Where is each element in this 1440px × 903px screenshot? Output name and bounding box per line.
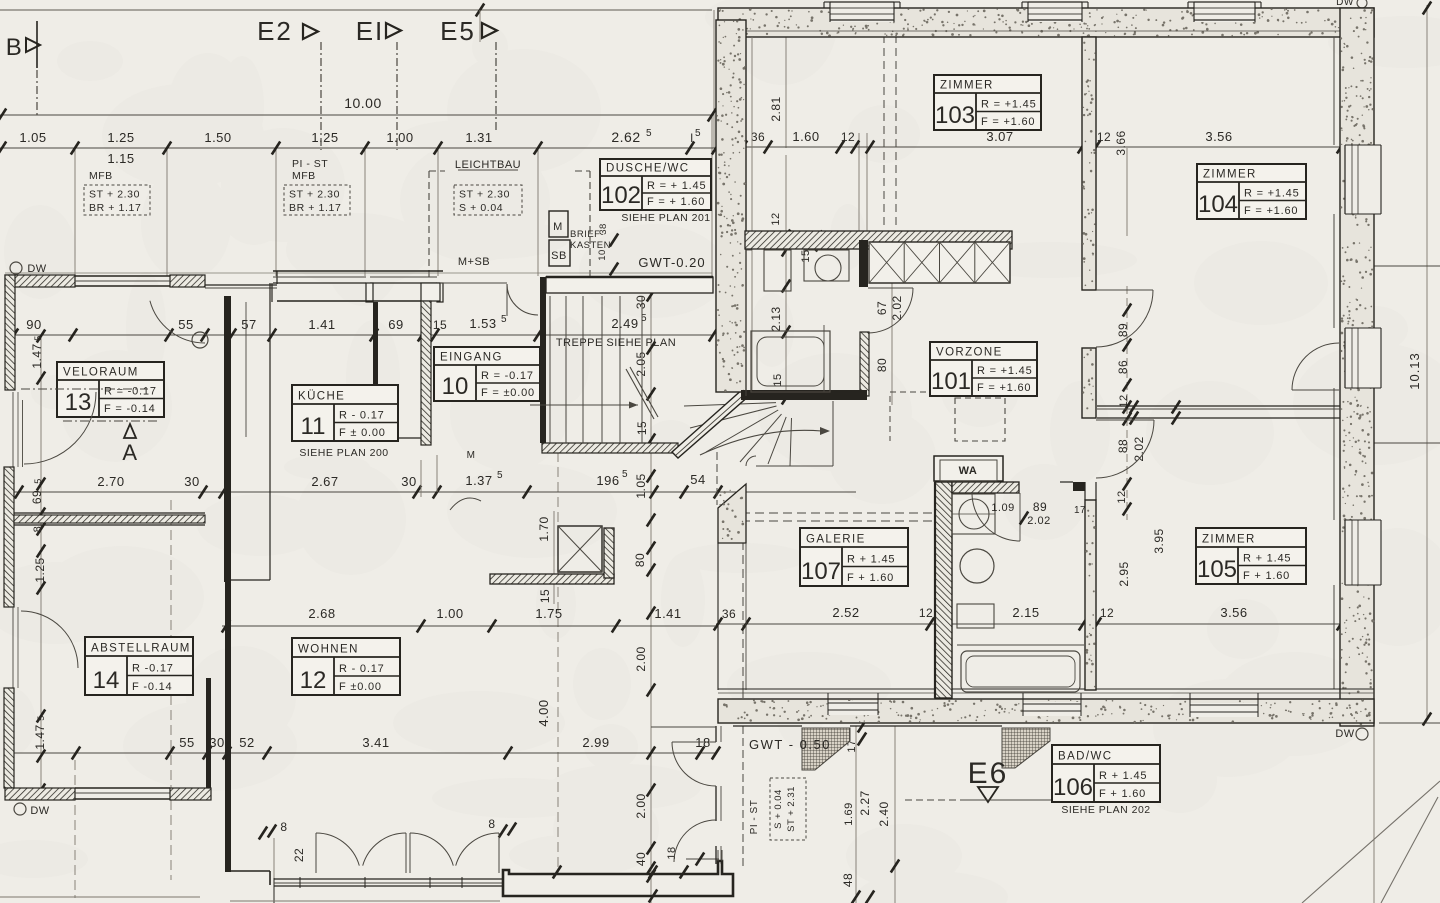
room vorzone 101: [930, 342, 1037, 396]
svg-text:BR + 1.17: BR + 1.17: [89, 202, 141, 214]
svg-text:10.13: 10.13: [1407, 352, 1422, 390]
terrace slab outline bottom center: [0, 850, 733, 903]
room zimmer 103: [934, 75, 1041, 130]
svg-text:MFB: MFB: [292, 170, 316, 182]
svg-text:5: 5: [646, 128, 652, 139]
svg-text:A: A: [122, 440, 137, 465]
svg-text:2.95: 2.95: [1117, 561, 1131, 586]
svg-text:12: 12: [1097, 130, 1111, 144]
dusche/wc fixtures: shower, washer, tub: [746, 250, 849, 392]
Leichtbau box: [454, 159, 522, 215]
svg-text:2.67: 2.67: [311, 474, 338, 489]
küche walls: [373, 302, 421, 438]
svg-text:ZIMMER: ZIMMER: [1203, 169, 1257, 181]
svg-text:57: 57: [241, 317, 256, 332]
svg-text:55: 55: [178, 317, 193, 332]
svg-text:103: 103: [935, 102, 975, 129]
room küche 11: [292, 385, 398, 441]
svg-text:104: 104: [1198, 191, 1238, 218]
svg-text:101: 101: [931, 368, 971, 395]
svg-text:102: 102: [601, 182, 641, 209]
svg-text:11: 11: [301, 413, 326, 440]
vorzone wc room (bath 102 lower) walls: [746, 250, 824, 396]
svg-text:EI: EI: [356, 16, 385, 46]
vertical dim labels upper wing x=786 x=892 x=1127: [769, 96, 1166, 586]
wohnen bottom wall + french doors: [225, 833, 503, 903]
svg-text:R - 0.17: R - 0.17: [339, 663, 385, 675]
svg-text:F = -0.14: F = -0.14: [104, 403, 156, 415]
vertical dim 10.13 right edge: [1407, 1, 1431, 725]
svg-text:15: 15: [772, 373, 784, 386]
svg-text:1.50: 1.50: [204, 130, 231, 145]
svg-text:12: 12: [300, 667, 327, 694]
svg-text:WA: WA: [959, 465, 978, 477]
svg-text:5: 5: [36, 715, 46, 721]
svg-text:3.41: 3.41: [362, 735, 389, 750]
room galerie 107: [800, 528, 908, 586]
svg-text:1.75: 1.75: [535, 606, 562, 621]
svg-text:89: 89: [1033, 500, 1047, 514]
bad/wc fixtures: [952, 493, 1084, 692]
svg-text:GALERIE: GALERIE: [806, 534, 866, 546]
svg-text:2.68: 2.68: [308, 606, 335, 621]
section marker A: [122, 424, 137, 465]
door to terrace upper: [672, 742, 716, 786]
dimension chain y=753: [14, 735, 720, 760]
door to terrace lower: [674, 820, 716, 862]
MFB box 1: [84, 151, 150, 215]
svg-text:E6: E6: [968, 757, 1009, 790]
svg-text:F = ±0.00: F = ±0.00: [481, 387, 535, 399]
svg-text:12: 12: [770, 212, 782, 225]
svg-text:3.66: 3.66: [1114, 130, 1128, 155]
svg-text:67: 67: [875, 301, 889, 315]
exterior wall left, lower wing: [4, 275, 18, 788]
svg-text:SIEHE PLAN 201: SIEHE PLAN 201: [621, 212, 710, 224]
svg-text:10: 10: [597, 249, 608, 261]
svg-text:F ± 0.00: F ± 0.00: [339, 427, 386, 439]
svg-text:196: 196: [596, 473, 619, 488]
svg-text:36: 36: [751, 130, 765, 144]
svg-text:R = +1.45: R = +1.45: [977, 365, 1033, 377]
interior wall 103|104 (speckled): [1082, 37, 1153, 418]
svg-text:36: 36: [722, 607, 736, 621]
svg-text:DW: DW: [1336, 0, 1354, 8]
svg-text:48: 48: [841, 873, 855, 887]
svg-text:3.56: 3.56: [1220, 605, 1247, 620]
svg-text:88: 88: [1116, 439, 1130, 453]
room abstellraum 14: [85, 637, 193, 695]
svg-text:54: 54: [690, 472, 705, 487]
room eingang 10: [434, 347, 540, 401]
svg-text:WOHNEN: WOHNEN: [298, 644, 359, 656]
svg-text:30: 30: [209, 735, 224, 750]
svg-text:5: 5: [33, 478, 43, 484]
svg-text:15: 15: [800, 249, 812, 262]
dusche/wc 102 walls + door: [741, 240, 913, 400]
svg-text:12: 12: [1100, 606, 1114, 620]
svg-text:ST + 2.30: ST + 2.30: [459, 189, 510, 201]
svg-text:F + 1.60: F + 1.60: [1243, 570, 1290, 582]
diagonal wall stair SW (double line): [672, 388, 750, 458]
svg-text:5: 5: [622, 469, 628, 480]
svg-text:GWT-0.20: GWT-0.20: [638, 255, 705, 270]
svg-text:DW: DW: [27, 263, 46, 275]
svg-text:F + 1.60: F + 1.60: [847, 572, 894, 584]
svg-text:1.05: 1.05: [19, 130, 46, 145]
svg-text:ST + 2.30: ST + 2.30: [289, 189, 340, 201]
svg-text:2.02: 2.02: [1027, 515, 1050, 527]
svg-text:M+SB: M+SB: [458, 256, 490, 268]
svg-text:2.02: 2.02: [1132, 436, 1146, 461]
svg-text:S + 0.04: S + 0.04: [459, 202, 503, 214]
svg-text:SIEHE PLAN 200: SIEHE PLAN 200: [299, 447, 388, 459]
svg-text:R = -0.17: R = -0.17: [481, 370, 534, 382]
room zimmer 105: [1196, 528, 1306, 584]
vertical dim labels center chain x=651: [536, 288, 719, 874]
svg-text:R = -0.17: R = -0.17: [104, 386, 157, 398]
svg-text:2.52: 2.52: [832, 605, 859, 620]
svg-text:2.15: 2.15: [1012, 605, 1039, 620]
exterior wall top, lower wing (masonry hatched): [5, 271, 712, 437]
eingang right wall + stair bottom wall: [540, 283, 678, 453]
room bad/wc 106: [1052, 745, 1160, 802]
svg-text:R + 1.45: R + 1.45: [1099, 770, 1147, 782]
svg-text:TREPPE SIEHE PLAN: TREPPE SIEHE PLAN: [556, 337, 676, 349]
svg-text:M: M: [553, 221, 563, 233]
svg-text:ST + 2.30: ST + 2.30: [89, 189, 140, 201]
fireplace / chimney: [490, 526, 614, 584]
MFB box 2: [284, 158, 350, 215]
svg-text:2.40: 2.40: [877, 801, 891, 826]
svg-text:106: 106: [1053, 774, 1093, 801]
svg-text:10.00: 10.00: [344, 95, 382, 111]
svg-text:22: 22: [292, 848, 306, 862]
dimension chain y=624 upper wing: [714, 605, 1350, 631]
svg-text:M: M: [467, 450, 476, 461]
svg-text:1.41: 1.41: [308, 317, 335, 332]
section marker E5: [440, 16, 497, 46]
svg-text:30: 30: [634, 295, 648, 309]
svg-text:13: 13: [65, 389, 92, 416]
dimension chain y=148: [0, 128, 720, 155]
svg-text:F = +1.60: F = +1.60: [1244, 205, 1298, 217]
east wall of lower wing with two doors: [651, 690, 743, 866]
svg-text:15: 15: [538, 589, 552, 603]
svg-text:DW: DW: [1335, 728, 1354, 740]
svg-text:12: 12: [841, 130, 855, 144]
svg-text:55: 55: [179, 735, 194, 750]
diagonal wall stair lower piece (speckled polygon): [718, 484, 746, 690]
upper wing top exterior wall: [718, 0, 1374, 37]
svg-text:1.31: 1.31: [465, 130, 492, 145]
crosshatched terrace piers: [733, 726, 1374, 770]
svg-text:1.70: 1.70: [537, 516, 551, 541]
dimension chain y=335 lower wing interior: [10, 313, 717, 348]
svg-text:2.05: 2.05: [634, 351, 648, 376]
section marker E2: [257, 16, 318, 46]
galerie|bad hatched wall: [934, 456, 1019, 698]
svg-text:8: 8: [280, 820, 287, 834]
svg-text:80: 80: [875, 358, 889, 372]
interior hatched wall veloraum/abstellraum: [14, 513, 205, 525]
svg-text:8: 8: [32, 526, 44, 533]
svg-text:DW: DW: [30, 805, 49, 817]
door zimmer105 + wall piece: [1060, 420, 1154, 690]
M / SB letterbox: [458, 211, 618, 276]
svg-text:3.56: 3.56: [1205, 129, 1232, 144]
svg-text:1.25: 1.25: [311, 130, 338, 145]
svg-text:15: 15: [433, 318, 447, 332]
winder stairs lower: [684, 401, 833, 505]
vertical dim labels left chain x=41: [30, 329, 47, 796]
svg-text:LEICHTBAU: LEICHTBAU: [455, 159, 521, 171]
svg-text:30: 30: [401, 474, 416, 489]
svg-text:2.27: 2.27: [858, 790, 872, 815]
svg-text:1.69: 1.69: [843, 802, 855, 825]
svg-text:69: 69: [388, 317, 403, 332]
GWT labels: [638, 255, 831, 752]
svg-text:DUSCHE/WC: DUSCHE/WC: [606, 163, 690, 175]
svg-text:5: 5: [501, 314, 507, 325]
svg-text:R = +1.45: R = +1.45: [981, 99, 1037, 111]
svg-text:4.00: 4.00: [536, 699, 551, 726]
svg-text:38: 38: [598, 223, 609, 235]
svg-text:1.37: 1.37: [465, 473, 492, 488]
interior wall between veloraum/küche corridor: [224, 283, 270, 872]
svg-text:S + 0.04: S + 0.04: [773, 789, 784, 829]
room zimmer 104: [1197, 164, 1306, 219]
svg-text:2.00: 2.00: [634, 646, 648, 671]
svg-text:107: 107: [801, 558, 841, 585]
svg-text:1.60: 1.60: [792, 129, 819, 144]
svg-text:ST + 2.31: ST + 2.31: [786, 786, 797, 832]
svg-text:2.62: 2.62: [611, 129, 640, 145]
svg-text:SB: SB: [551, 250, 567, 262]
svg-text:1.25: 1.25: [107, 130, 134, 145]
svg-text:R + 1.45: R + 1.45: [847, 554, 895, 566]
svg-text:2.99: 2.99: [582, 735, 609, 750]
svg-text:F ±0.00: F ±0.00: [339, 681, 382, 693]
svg-text:R + 1.45: R + 1.45: [1243, 553, 1291, 565]
svg-text:1.47: 1.47: [33, 724, 47, 749]
dimension chain y=147 upper wing: [716, 129, 1356, 156]
svg-text:1.41: 1.41: [654, 606, 681, 621]
zimmer 103 south wall hatched + closet: [745, 231, 1012, 283]
svg-text:1.25: 1.25: [33, 557, 47, 582]
E6 section marker: [905, 757, 1160, 802]
svg-text:R = +1.45: R = +1.45: [1244, 188, 1300, 200]
svg-text:1.53: 1.53: [469, 316, 496, 331]
svg-text:2.00: 2.00: [634, 793, 648, 818]
svg-text:PI - ST: PI - ST: [749, 800, 760, 835]
svg-text:80: 80: [633, 553, 647, 567]
svg-text:E5: E5: [440, 16, 476, 46]
svg-text:12: 12: [919, 606, 933, 620]
svg-text:30: 30: [184, 474, 199, 489]
svg-text:R - 0.17: R - 0.17: [339, 410, 385, 422]
svg-text:86: 86: [1116, 360, 1130, 374]
svg-text:2.49: 2.49: [611, 316, 638, 331]
svg-text:1.00: 1.00: [386, 130, 413, 145]
upper wing left exterior wall: [716, 20, 752, 392]
svg-text:8: 8: [488, 817, 495, 831]
upper wing bottom exterior wall: [718, 689, 1374, 740]
svg-text:1.47: 1.47: [30, 343, 44, 368]
svg-text:17: 17: [1074, 505, 1086, 516]
dimension chain y=492: [12, 469, 856, 499]
staircase straight flight: [530, 296, 658, 443]
svg-text:ABSTELLRAUM: ABSTELLRAUM: [91, 643, 191, 655]
svg-text:VORZONE: VORZONE: [936, 347, 1003, 359]
svg-text:ZIMMER: ZIMMER: [940, 80, 994, 92]
dimension chain top 10.00: [0, 95, 716, 122]
svg-text:3.07: 3.07: [986, 129, 1013, 144]
svg-text:5: 5: [497, 470, 503, 481]
svg-text:5: 5: [695, 128, 701, 139]
svg-text:R -0.17: R -0.17: [132, 663, 174, 675]
svg-text:90: 90: [26, 317, 41, 332]
svg-text:BAD/WC: BAD/WC: [1058, 751, 1112, 763]
svg-text:VELORAUM: VELORAUM: [63, 367, 139, 379]
exterior wall bottom-left + DW: [5, 788, 211, 817]
svg-text:PI - ST: PI - ST: [292, 158, 328, 170]
svg-text:105: 105: [1197, 556, 1237, 583]
dimension chain y=626 wohnen: [222, 606, 716, 633]
door zimmer 104 right wall: [1292, 343, 1339, 390]
svg-text:52: 52: [239, 735, 254, 750]
room dusche/wc 102: [600, 159, 711, 210]
interior wall abstellraum right: [206, 678, 211, 788]
svg-text:1.15: 1.15: [107, 151, 134, 166]
svg-text:14: 14: [93, 667, 120, 694]
svg-text:F = +1.60: F = +1.60: [977, 382, 1031, 394]
svg-text:3.95: 3.95: [1152, 528, 1166, 553]
upper wing right exterior wall: [1334, 8, 1381, 726]
wall 104|105 corridor: [1097, 400, 1340, 424]
svg-text:l: l: [690, 131, 693, 145]
svg-text:B: B: [6, 34, 23, 61]
svg-text:ZIMMER: ZIMMER: [1202, 534, 1256, 546]
svg-text:SIEHE PLAN 202: SIEHE PLAN 202: [1061, 804, 1150, 816]
svg-text:89: 89: [1116, 323, 1130, 337]
svg-text:40: 40: [634, 852, 648, 866]
svg-text:1.09: 1.09: [991, 502, 1014, 514]
svg-text:69: 69: [30, 490, 44, 504]
svg-text:F = + 1.60: F = + 1.60: [647, 196, 705, 208]
svg-text:12: 12: [1116, 490, 1128, 503]
svg-text:2.13: 2.13: [769, 306, 783, 331]
door arcs lower wing: [21, 301, 481, 668]
svg-text:F + 1.60: F + 1.60: [1099, 788, 1146, 800]
svg-text:BR + 1.17: BR + 1.17: [289, 202, 341, 214]
section marker EI: [356, 16, 401, 46]
room wohnen 12: [292, 638, 400, 695]
svg-text:1.05: 1.05: [634, 473, 648, 498]
svg-text:KÜCHE: KÜCHE: [298, 391, 345, 403]
DW mark top-left wall: [10, 262, 47, 275]
svg-text:MFB: MFB: [89, 170, 113, 182]
svg-text:5: 5: [33, 335, 43, 341]
svg-text:2.81: 2.81: [769, 96, 783, 121]
room veloraum 13: [57, 362, 164, 417]
PI-ST rotated box bottom: [749, 778, 806, 840]
entrance door zone + porch wall: [421, 277, 713, 497]
section marker B: [6, 34, 40, 61]
svg-text:R = + 1.45: R = + 1.45: [647, 180, 706, 192]
vertical dims bottom terrace: [259, 719, 899, 903]
svg-text:2.70: 2.70: [97, 474, 124, 489]
svg-text:EINGANG: EINGANG: [440, 352, 503, 364]
svg-text:E2: E2: [257, 16, 293, 46]
svg-text:GWT - 0.50: GWT - 0.50: [749, 737, 831, 752]
svg-text:F -0.14: F -0.14: [132, 681, 172, 693]
svg-text:F = +1.60: F = +1.60: [981, 116, 1035, 128]
svg-text:1.00: 1.00: [436, 606, 463, 621]
svg-text:10: 10: [442, 373, 469, 400]
